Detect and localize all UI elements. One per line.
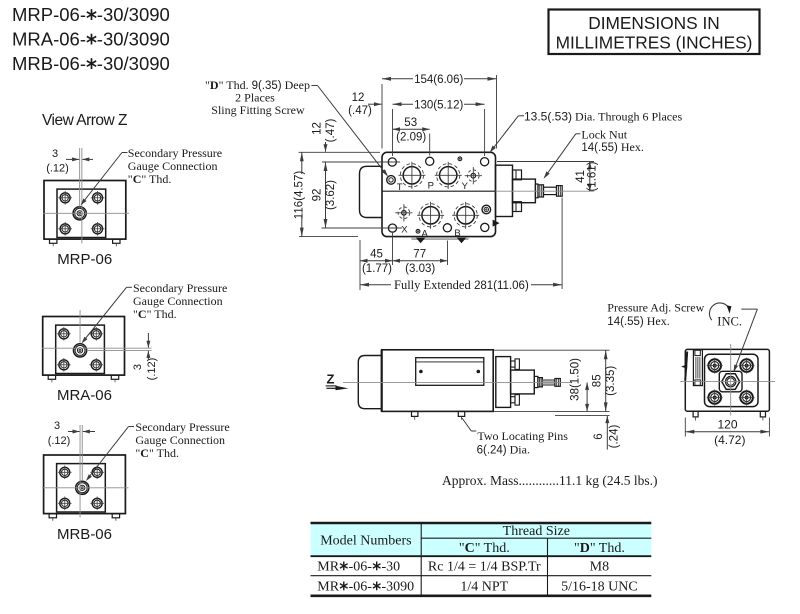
side view body [382, 350, 494, 412]
ext line 130 right [484, 109, 486, 156]
ext line 53 right [429, 134, 431, 156]
svg-text:Gauge Connection: Gauge Connection [135, 433, 225, 447]
svg-text:MRB-06-: MRB-06- [12, 53, 86, 74]
top view body [382, 152, 496, 236]
port P [440, 167, 457, 184]
svg-text:(.12): (.12) [46, 163, 69, 175]
ext line screw end [561, 198, 563, 290]
svg-text:(3.03): (3.03) [405, 263, 435, 275]
table header background [311, 523, 652, 556]
adj cover block top view [496, 165, 513, 216]
svg-text:Secondary Pressure: Secondary Pressure [133, 281, 227, 295]
svg-text:13.5(.53) Dia. Through 6 Place: 13.5(.53) Dia. Through 6 Places [524, 109, 682, 123]
locating pin left [412, 411, 418, 416]
side center line [343, 381, 571, 383]
svg-text:MRB-06: MRB-06 [57, 526, 112, 543]
svg-text:(.12): (.12) [48, 435, 71, 447]
table line under row1 [311, 575, 652, 577]
dim 41 [589, 162, 591, 192]
bolt hole top-mid [426, 157, 434, 165]
port B [457, 207, 474, 224]
dim 45 [360, 260, 393, 262]
leader lock nut [576, 133, 581, 135]
svg-text:77: 77 [413, 249, 426, 261]
svg-text:Gauge Connection: Gauge Connection [128, 159, 218, 173]
svg-text:INC.: INC. [717, 315, 742, 329]
dimensions-in box [549, 10, 760, 55]
side screw shaft [542, 380, 555, 385]
svg-text:(4.72): (4.72) [714, 433, 745, 447]
svg-text:-06-: -06- [349, 559, 373, 574]
svg-text:Y: Y [462, 181, 469, 192]
svg-text:53: 53 [404, 117, 417, 129]
adj housing top view [513, 179, 536, 203]
bolt hole bottom-mid [443, 224, 451, 232]
ext line 130 left [392, 109, 394, 156]
svg-text:"C" Thd.: "C" Thd. [459, 541, 510, 556]
svg-text:P: P [428, 181, 434, 192]
MRB-06 gauge leader [129, 426, 135, 428]
MRP-06 gauge leader [122, 152, 128, 154]
svg-text:(.47): (.47) [348, 105, 372, 117]
svg-text:3: 3 [52, 148, 58, 160]
svg-text:6: 6 [593, 433, 605, 439]
ext line bolt row left [322, 161, 400, 163]
end center square [719, 371, 742, 392]
ext line pin bottom [555, 415, 610, 417]
svg-text:Secondary Pressure: Secondary Pressure [128, 146, 222, 160]
ext line bolt row bottom left [322, 227, 403, 229]
bottom section bar [412, 237, 468, 239]
MRB-06 center lines [42, 487, 129, 489]
name plate [416, 358, 484, 386]
end view face [705, 354, 759, 406]
svg-text:92: 92 [311, 189, 323, 202]
side adj housing [511, 370, 535, 394]
bolt hole top-left [388, 158, 396, 166]
MRA-06 center lines [79, 310, 81, 343]
dim 92 [325, 162, 327, 228]
svg-text:Two Locating Pins: Two Locating Pins [477, 429, 568, 443]
svg-text:(.47): (.47) [325, 119, 337, 143]
table vertical line 1 [420, 523, 422, 596]
side view body left edge [381, 350, 383, 412]
dim 154 [382, 78, 413, 80]
svg-text:M8: M8 [590, 559, 609, 574]
side cover gap line [492, 353, 494, 408]
svg-text:-06-: -06- [349, 579, 373, 594]
svg-text:"C" Thd.: "C" Thd. [133, 307, 177, 321]
ext line 85 top [494, 349, 610, 351]
svg-text:-30/3090: -30/3090 [97, 29, 170, 50]
svg-text:MRP-06-: MRP-06- [12, 4, 86, 25]
side cover bolt bottom [511, 397, 515, 403]
adj screw end top view [557, 186, 563, 197]
svg-text:View Arrow Z: View Arrow Z [42, 112, 127, 129]
end bolt bottom-right [740, 391, 753, 404]
svg-text:5/16-18 UNC: 5/16-18 UNC [561, 579, 638, 594]
svg-text:6(.24) Dia.: 6(.24) Dia. [477, 443, 530, 457]
svg-text:14(.55) Hex.: 14(.55) Hex. [607, 314, 669, 328]
svg-text:12: 12 [311, 122, 323, 135]
table line under thread size [421, 537, 651, 539]
bolt hole bottom-right [481, 223, 489, 231]
svg-text:"D" Thd.: "D" Thd. [574, 541, 625, 556]
svg-text:T: T [397, 182, 403, 193]
leader 13.5 dia [518, 115, 524, 117]
svg-text:MR: MR [317, 559, 339, 574]
svg-text:281(11.06): 281(11.06) [474, 280, 529, 292]
svg-text:MRA-06: MRA-06 [57, 387, 112, 404]
svg-text:-30: -30 [382, 559, 401, 574]
svg-text:(.24): (.24) [608, 425, 620, 449]
sling screw hole D [387, 176, 396, 185]
svg-text:Thread Size: Thread Size [503, 524, 570, 539]
svg-text:-30/3090: -30/3090 [97, 4, 170, 25]
svg-text:85: 85 [591, 374, 603, 387]
ext line bolt mid below [447, 241, 449, 266]
svg-text:DIMENSIONS IN: DIMENSIONS IN [588, 13, 720, 33]
side view left tab [358, 356, 381, 409]
end bolt bottom-left [708, 391, 721, 404]
MRP-06 block view [44, 181, 126, 240]
MRP-06 center lines [44, 212, 130, 214]
svg-text:X: X [401, 224, 408, 235]
svg-text:MRP-06: MRP-06 [57, 251, 112, 268]
bolt hole top-right [481, 158, 489, 166]
corner mark right [493, 220, 500, 227]
dim fully extended [360, 284, 391, 286]
table top border [311, 522, 652, 525]
svg-text:14(.55) Hex.: 14(.55) Hex. [581, 140, 643, 154]
svg-text:Fully Extended: Fully Extended [394, 278, 471, 292]
end view body [685, 349, 769, 411]
end view left arrow [681, 364, 687, 369]
MRB-06 block view [44, 455, 126, 514]
leader pressure adj [741, 308, 757, 310]
table line under headers [311, 555, 652, 557]
locating pin mark left [416, 238, 426, 244]
svg-text:Secondary Pressure: Secondary Pressure [135, 420, 229, 434]
ext line body bottom left [299, 236, 358, 238]
table bottom border [311, 594, 652, 597]
dim 85 [605, 350, 607, 411]
small hole top [458, 157, 462, 161]
table vertical line 2 [547, 538, 549, 596]
dim 77 [393, 260, 448, 262]
name plate screws [420, 370, 423, 373]
svg-text:3: 3 [132, 364, 144, 370]
svg-text:(3.62): (3.62) [325, 180, 337, 210]
svg-text:Rc 1/4 = 1/4 BSP.Tr: Rc 1/4 = 1/4 BSP.Tr [428, 559, 541, 574]
svg-text:41: 41 [575, 170, 587, 183]
svg-text:(1.77): (1.77) [362, 263, 392, 275]
svg-text:154(6.06): 154(6.06) [414, 74, 463, 86]
end bolt top-right [740, 359, 753, 372]
svg-text:Model Numbers: Model Numbers [320, 534, 411, 549]
leader D thd [311, 85, 317, 87]
INC rotation arc [709, 303, 728, 320]
port X [402, 211, 407, 216]
ext line body top left [299, 151, 381, 153]
side lock nut [538, 378, 543, 387]
screw center line [496, 190, 595, 192]
lock nut top view [538, 185, 544, 197]
top view mid line [382, 190, 496, 192]
svg-text:1/4 NPT: 1/4 NPT [460, 579, 508, 594]
svg-text:(1.61): (1.61) [587, 161, 599, 191]
pressure adj hex nut [722, 374, 740, 390]
end view plate edge [685, 352, 687, 381]
svg-text:45: 45 [370, 249, 383, 261]
svg-text:MR: MR [317, 579, 339, 594]
ext line 41 top [497, 161, 594, 163]
svg-text:3: 3 [54, 420, 60, 432]
svg-text:-30/3090: -30/3090 [97, 53, 170, 74]
end view center lines [730, 344, 732, 416]
MRA-06 gauge leader [127, 286, 133, 288]
adj step top view [535, 184, 538, 198]
svg-text:Sling Fitting Screw: Sling Fitting Screw [211, 103, 305, 117]
svg-text:MRA-06-: MRA-06- [12, 29, 86, 50]
svg-text:MILLIMETRES (INCHES): MILLIMETRES (INCHES) [556, 33, 753, 53]
locating pin right [458, 411, 464, 416]
svg-text:(2.09): (2.09) [396, 132, 426, 144]
svg-text:(.12): (.12) [146, 358, 158, 381]
dim 38 [586, 382, 588, 411]
dim 116 [301, 152, 303, 174]
ext lines 120 [684, 418, 686, 437]
side cover bolt top [511, 361, 515, 367]
end view feet [693, 411, 698, 417]
dim 120 [685, 431, 769, 433]
svg-text:"C" Thd.: "C" Thd. [135, 446, 179, 460]
pins leader [462, 418, 471, 431]
svg-text:12: 12 [352, 92, 365, 104]
adj cover bolts top view [513, 170, 522, 180]
MRA-06 block view [43, 317, 125, 376]
side adj step [534, 376, 538, 387]
svg-text:120: 120 [717, 418, 737, 432]
svg-text:116(4.57): 116(4.57) [293, 171, 305, 220]
svg-text:(3.35): (3.35) [605, 366, 617, 396]
ext line tab left [359, 240, 361, 290]
svg-text:-3090: -3090 [382, 579, 415, 594]
dim 53 [393, 128, 430, 130]
small hole bottom [416, 229, 420, 233]
svg-text:"C" Thd.: "C" Thd. [128, 172, 172, 186]
svg-text:38(1.50): 38(1.50) [570, 358, 582, 401]
locating pin mark right [457, 238, 467, 244]
side screw end [555, 379, 560, 387]
sling screw hole 2 [482, 205, 491, 214]
ext line bottom body [494, 410, 610, 412]
bolt hole bottom-left [388, 224, 396, 232]
port A [422, 207, 439, 224]
svg-text:Gauge Connection: Gauge Connection [133, 294, 223, 308]
end view name plate strip [693, 350, 702, 386]
svg-text:Pressure Adj. Screw: Pressure Adj. Screw [607, 301, 704, 315]
port Y [471, 173, 476, 178]
svg-text:Z: Z [327, 372, 335, 387]
dim 130 [393, 103, 414, 105]
ext line bolt left below [392, 233, 394, 265]
port T [403, 167, 420, 184]
side cover block [496, 357, 511, 408]
ext lines 154 [381, 84, 383, 149]
svg-text:Approx. Mass............11.1 k: Approx. Mass............11.1 kg (24.5 lb… [442, 473, 658, 488]
svg-text:130(5.12): 130(5.12) [414, 99, 463, 111]
end bolt top-left [708, 359, 721, 372]
dim 6 [606, 416, 608, 450]
adj screw shaft top view [544, 187, 557, 194]
top view left tab [360, 166, 383, 217]
